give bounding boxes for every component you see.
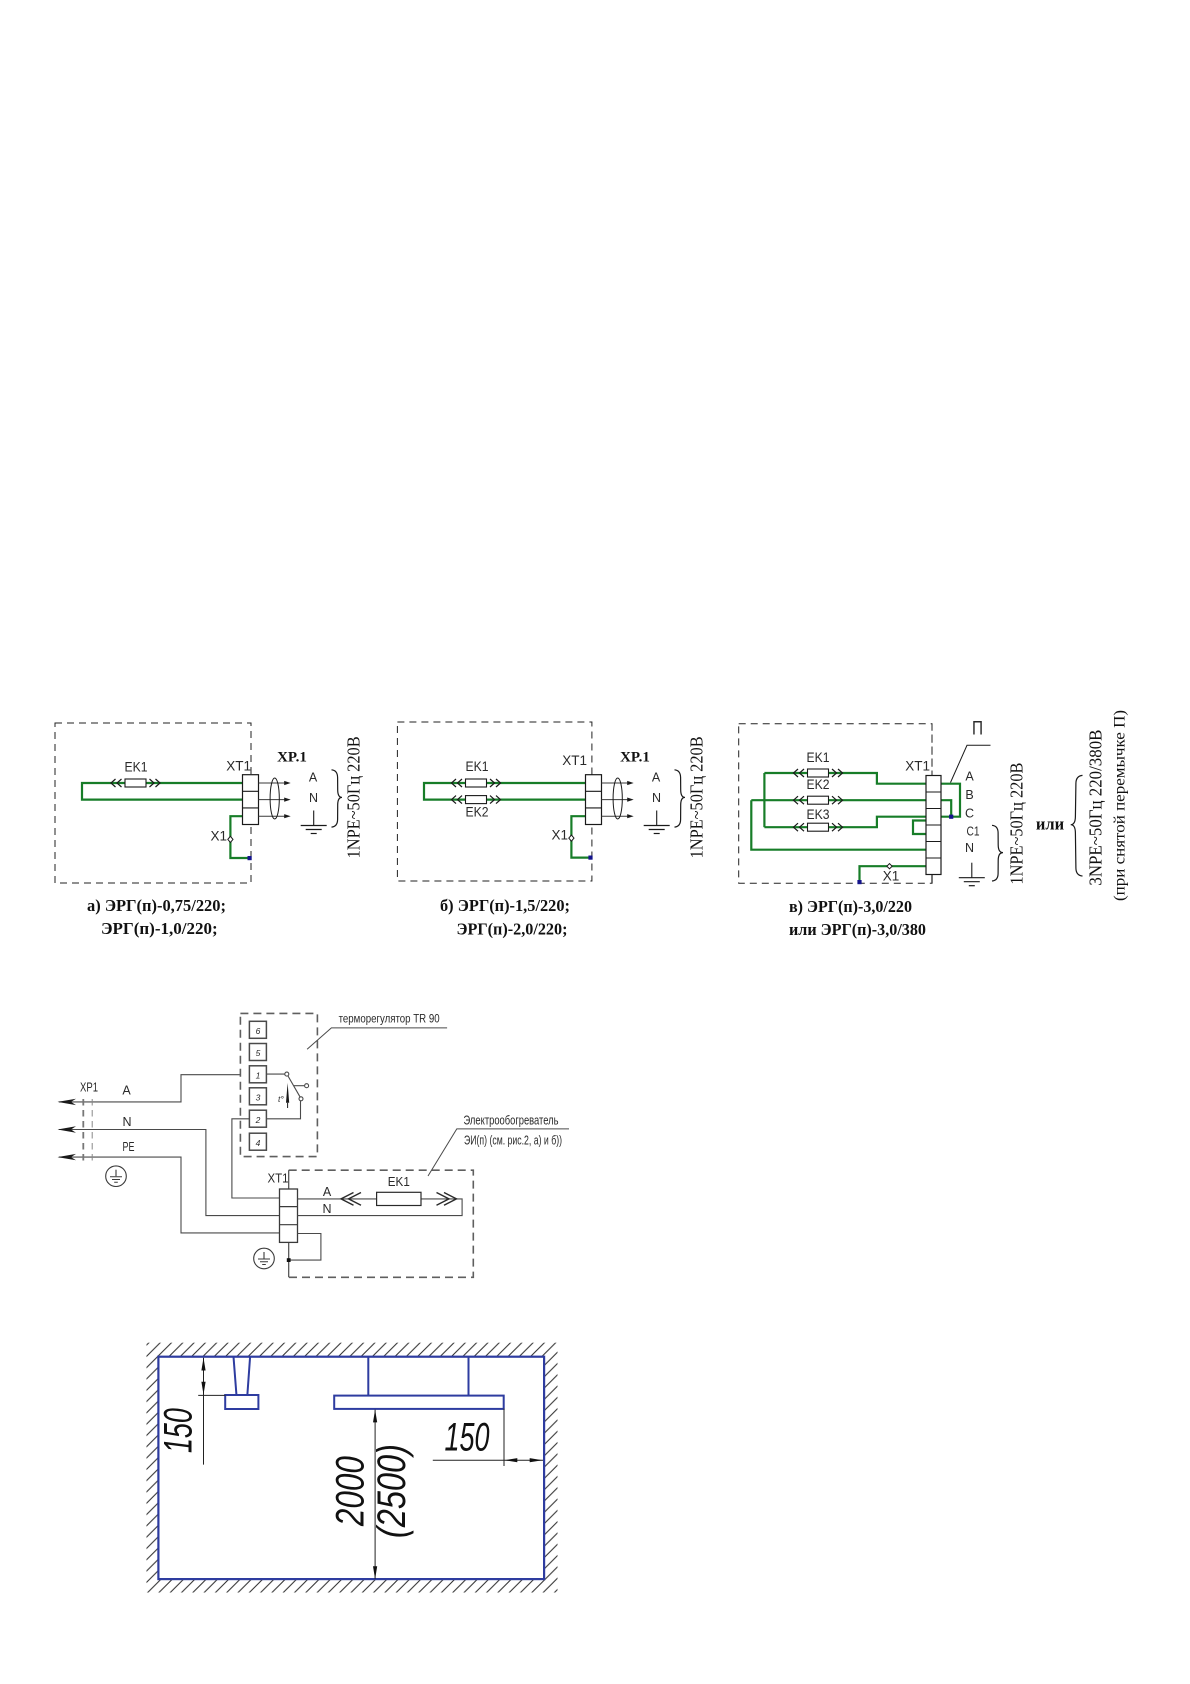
mains assembly fig a — [259, 736, 364, 858]
svg-text:или ЭРГ(п)-3,0/380: или ЭРГ(п)-3,0/380 — [789, 920, 926, 939]
svg-text:ЭРГ(п)-2,0/220;: ЭРГ(п)-2,0/220; — [457, 920, 568, 939]
wire: jumper P (A to C) right of block — [941, 784, 960, 817]
wire: left tie EK2-N row — [751, 800, 926, 850]
svg-text:EK1: EK1 — [388, 1175, 410, 1189]
svg-text:EK1: EK1 — [125, 760, 148, 775]
node: junction dot fig b — [588, 856, 592, 860]
svg-text:3: 3 — [256, 1093, 261, 1103]
heater dashed box — [289, 1170, 474, 1277]
wire terminal 2 to XT1 cell 1 — [232, 1119, 280, 1198]
wire: heater loop fig a — [82, 783, 243, 800]
wire terminal 2 to switch — [266, 1101, 300, 1119]
room interior — [158, 1357, 544, 1579]
terminal block XT1 heater — [280, 1189, 298, 1242]
svg-text:а) ЭРГ(п)-0,75/220;: а) ЭРГ(п)-0,75/220; — [87, 896, 226, 915]
arrow XP1 phase A — [58, 1099, 77, 1105]
contact X1 diamond fig b — [569, 835, 574, 841]
dim 150 right: dimension line — [433, 1459, 543, 1461]
svg-text:б) ЭРГ(п)-1,5/220;: б) ЭРГ(п)-1,5/220; — [440, 896, 570, 915]
svg-text:или: или — [1036, 815, 1065, 834]
svg-text:5: 5 — [256, 1048, 261, 1058]
svg-text:XP1: XP1 — [80, 1081, 98, 1095]
svg-text:EK1: EK1 — [466, 759, 489, 774]
switch fixed contact with stub — [294, 1085, 304, 1087]
svg-text:XT1: XT1 — [562, 753, 587, 768]
dim 150 right: arrows — [505, 1458, 518, 1462]
svg-text:EK3: EK3 — [807, 807, 830, 822]
svg-text:ЭРГ(п)-1,0/220;: ЭРГ(п)-1,0/220; — [101, 919, 218, 938]
svg-text:N: N — [965, 841, 974, 855]
wire: heater loop fig b — [424, 783, 586, 800]
svg-text:150: 150 — [445, 1416, 490, 1460]
switch pivot contact — [285, 1072, 289, 1076]
svg-text:1NPE~50Гц 220В: 1NPE~50Гц 220В — [1007, 763, 1027, 885]
svg-text:4: 4 — [256, 1138, 261, 1148]
wire: C-C1 jumper left of block — [913, 821, 926, 835]
heating element EK1 fig v — [794, 769, 843, 777]
heating element EK1 fig b — [452, 779, 501, 787]
wall heater body — [225, 1395, 258, 1409]
dashed edge through block bottom — [931, 875, 933, 884]
svg-text:(2500): (2500) — [370, 1444, 414, 1538]
svg-text:A: A — [122, 1084, 131, 1098]
dim 150 right: extension line — [503, 1409, 505, 1467]
dashed enclosure box fig b — [397, 722, 592, 881]
thermostat terminal 2 — [249, 1110, 266, 1127]
heating element EK2 fig b — [452, 796, 501, 804]
svg-text:t°: t° — [278, 1094, 284, 1104]
svg-text:B: B — [965, 788, 973, 802]
svg-text:EK2: EK2 — [466, 805, 489, 820]
wire: EK1 row — [764, 773, 926, 784]
svg-text:PE: PE — [123, 1140, 135, 1154]
node: junction dot PE — [287, 1258, 291, 1262]
switch arm — [288, 1076, 300, 1097]
wire terminal 1 to switch pivot — [266, 1073, 285, 1075]
dim 150 left: extension line — [198, 1394, 225, 1396]
wire: PE row to X1 — [860, 866, 927, 881]
dashed edge through block top — [931, 724, 933, 776]
dashed enclosure box fig v — [739, 724, 932, 884]
svg-text:2: 2 — [255, 1115, 261, 1125]
leader line for jumper P — [951, 745, 991, 782]
svg-text:C: C — [965, 807, 974, 821]
svg-text:ЭИ(п) (см. рис.2, а) и б)): ЭИ(п) (см. рис.2, а) и б)) — [464, 1134, 562, 1148]
arrow XP1 N — [58, 1126, 77, 1132]
svg-text:X1: X1 — [210, 829, 227, 844]
svg-text:A: A — [323, 1185, 332, 1199]
wire: jumper B to junction — [941, 800, 951, 817]
brace small fig v — [992, 825, 1003, 881]
wire N from XP1 to XT1 cell 2 — [59, 1130, 280, 1216]
ceiling heater legs — [368, 1357, 468, 1396]
heating element EK1 — [111, 779, 160, 787]
brace big fig v — [1071, 775, 1083, 876]
dim 150 left: arrows — [201, 1358, 205, 1371]
svg-text:терморегулятор TR 90: терморегулятор TR 90 — [339, 1012, 440, 1026]
node: junction dot — [248, 856, 252, 860]
svg-text:X1: X1 — [883, 869, 900, 884]
contact X1 diamond fig v — [887, 864, 892, 869]
svg-text:A: A — [965, 770, 974, 784]
heating element EK1 heater (bigger) — [341, 1193, 361, 1206]
thermal actuator arrow — [286, 1083, 289, 1103]
thermostat terminal 3 — [249, 1088, 266, 1105]
thermostat dashed box — [240, 1013, 317, 1156]
switch moving contact — [299, 1097, 303, 1101]
ceiling heater body — [334, 1396, 504, 1409]
earth symbol at heater — [254, 1248, 275, 1269]
svg-text:EK1: EK1 — [807, 750, 830, 765]
dashed enclosure box fig a — [55, 723, 251, 883]
svg-text:Электрообогреватель: Электрообогреватель — [464, 1114, 559, 1128]
connector XP1 dashed boundary — [82, 1099, 84, 1162]
terminal block XT1 fig b — [586, 775, 602, 825]
heating element EK2 fig v — [794, 796, 843, 804]
wire heater loop A-EK1-N — [298, 1199, 463, 1216]
dim 150 left: dimension line — [203, 1358, 205, 1465]
terminal block XT1 fig a — [243, 775, 259, 825]
arrow XP1 PE — [58, 1154, 77, 1160]
wire: PE tail to X1 fig b — [571, 816, 591, 857]
mains assembly fig b — [602, 736, 707, 858]
svg-text:3NPE~50Гц 220/380В: 3NPE~50Гц 220/380В — [1086, 730, 1106, 886]
leader line heater label — [428, 1129, 569, 1176]
svg-text:N: N — [122, 1115, 131, 1129]
svg-text:1: 1 — [256, 1071, 261, 1081]
svg-text:XT1: XT1 — [905, 759, 930, 774]
svg-text:XT1: XT1 — [268, 1172, 289, 1186]
wire: left tie EK1-EK3 — [763, 773, 765, 827]
dim 2000: arrows — [373, 1410, 377, 1423]
heating element EK3 fig v — [794, 823, 843, 831]
thermostat terminal 4 — [249, 1133, 266, 1150]
wire PE loop from cell 3 — [289, 1234, 321, 1261]
svg-text:2000: 2000 — [329, 1456, 373, 1527]
svg-text:X1: X1 — [551, 828, 568, 843]
svg-text:6: 6 — [256, 1026, 261, 1036]
wire PE from XP1 to XT1 cell 3 — [59, 1157, 280, 1233]
room outline — [158, 1357, 544, 1579]
node: junction dot jumper — [949, 815, 953, 819]
wire: EK3 row — [764, 817, 926, 828]
dim 2000: dimension line — [374, 1410, 376, 1580]
svg-text:150: 150 — [157, 1408, 201, 1453]
svg-text:C1: C1 — [967, 825, 980, 839]
svg-text:П: П — [972, 719, 983, 740]
svg-text:N: N — [322, 1202, 331, 1216]
contact X1 diamond — [228, 836, 233, 842]
wire below XT1 to box bottom — [288, 1242, 290, 1277]
ground symbol fig v — [959, 863, 985, 886]
leader line thermostat label — [307, 1028, 447, 1049]
wire A from XP1 to thermostat terminal 1 — [59, 1075, 250, 1102]
svg-text:в) ЭРГ(п)-3,0/220: в) ЭРГ(п)-3,0/220 — [789, 897, 912, 916]
svg-text:XT1: XT1 — [226, 759, 251, 774]
svg-text:EK2: EK2 — [807, 777, 830, 792]
terminal block XT1 fig v — [926, 776, 941, 875]
wire: PE tail to X1 — [230, 816, 250, 858]
earth symbol at XP1 — [106, 1166, 127, 1187]
node: junction dot fig v bottom — [857, 880, 861, 884]
wire: EK2 row — [751, 799, 926, 801]
thermostat terminal 6 — [249, 1021, 266, 1038]
wall hatching — [147, 1343, 558, 1593]
svg-text:(при снятой перемычке П): (при снятой перемычке П) — [1112, 710, 1129, 901]
wall-mount bracket trapezoid — [234, 1357, 251, 1395]
thermostat terminal 1 — [249, 1066, 266, 1083]
thermostat terminal 5 — [249, 1044, 266, 1061]
